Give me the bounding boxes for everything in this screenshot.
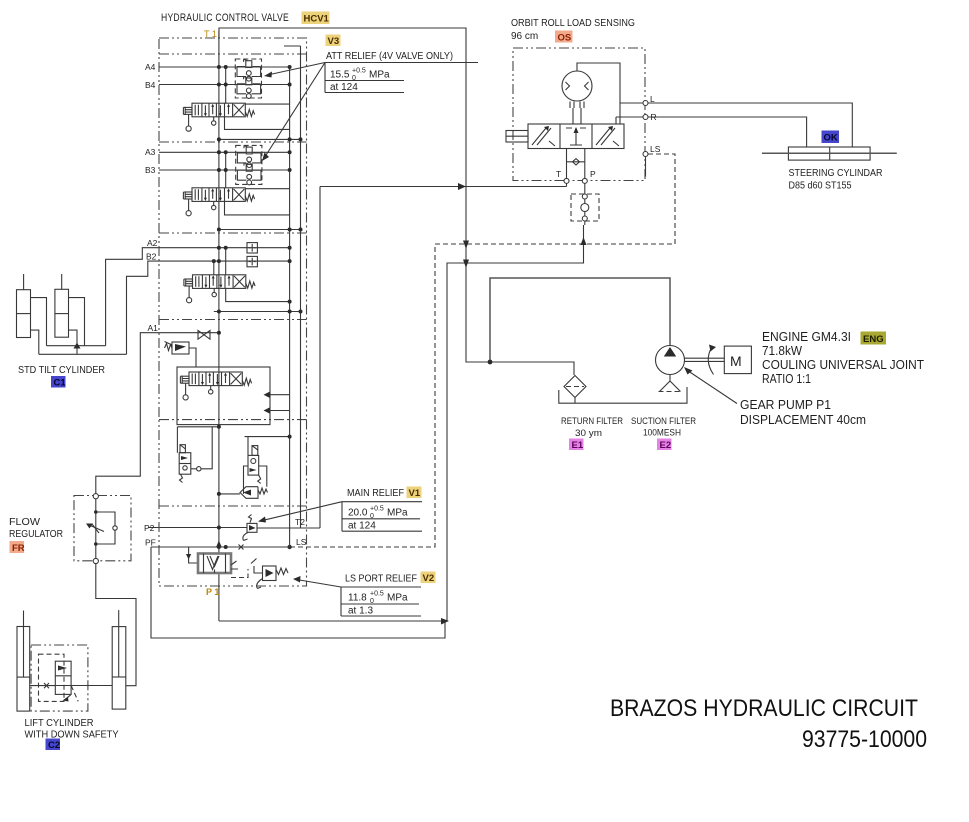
return filter diamond	[564, 376, 586, 398]
tilt junction arrow	[76, 346, 78, 355]
section divider y506	[159, 505, 307, 507]
valve right internal vertical	[289, 67, 291, 547]
orbit roll dash-dot enclosure	[513, 48, 645, 181]
section divider y233	[159, 232, 307, 234]
svg-text:LS: LS	[296, 537, 307, 547]
sec1 throttle bowtie on A1	[198, 330, 204, 339]
sec1 outer solid box	[177, 367, 270, 425]
svg-text:+0.5: +0.5	[370, 591, 384, 598]
svg-text:HCV1: HCV1	[304, 14, 330, 25]
sec2 riser A	[225, 248, 227, 275]
tilt header A wire	[47, 345, 106, 347]
pump outlet stub	[669, 375, 671, 382]
wire T2 port line	[257, 527, 320, 529]
steering cylinder rod	[762, 152, 897, 154]
motor top loop	[577, 63, 620, 124]
svg-text:V1: V1	[409, 488, 421, 499]
svg-text:20.0: 20.0	[348, 508, 368, 519]
tilt header B wire	[39, 353, 127, 355]
orbit roll gerotor motor	[562, 71, 592, 101]
svg-text:15.5: 15.5	[330, 70, 350, 81]
wire valve to cyl2	[71, 685, 112, 687]
pilot section left valve outlet	[191, 468, 197, 470]
main relief V1 valve	[247, 523, 257, 532]
svg-text:PF: PF	[145, 538, 156, 548]
svg-text:at 124: at 124	[348, 521, 376, 532]
svg-text:L: L	[650, 94, 655, 104]
sec1 comp valve	[172, 342, 189, 354]
wire A1 to flow regulator	[96, 333, 159, 494]
wire R to steering cylinder	[648, 117, 807, 147]
V1 table	[342, 502, 422, 532]
svg-text:P: P	[590, 169, 596, 179]
wire regulator to lift cylinders	[96, 564, 136, 686]
tilt cylinder 1 rod	[23, 274, 25, 290]
engine M box	[724, 346, 751, 374]
sec4 check assembly upper	[237, 59, 261, 81]
sec2 work line B elbow	[226, 288, 290, 301]
down safety inner dashed box	[39, 654, 65, 701]
svg-text:WITH DOWN SAFETY: WITH DOWN SAFETY	[25, 730, 119, 741]
tilt cyl1 head port wire	[31, 298, 47, 346]
valve left chamber arrows	[532, 128, 546, 145]
sec3 spool valve	[183, 188, 254, 216]
wire P2 port line	[148, 527, 247, 529]
svg-text:at 1.3: at 1.3	[348, 606, 373, 617]
svg-text:DISPLACEMENT 40cm: DISPLACEMENT 40cm	[740, 413, 866, 427]
down safety line with X	[30, 685, 56, 687]
port line B2	[159, 260, 290, 262]
svg-text:MPa: MPa	[369, 70, 390, 81]
svg-text:STEERING CYLINDAR: STEERING CYLINDAR	[789, 168, 883, 179]
svg-text:MPa: MPa	[387, 508, 408, 519]
svg-text:ORBIT ROLL LOAD SENSING: ORBIT ROLL LOAD SENSING	[511, 18, 635, 29]
HCV1 outer dash-dot enclosure	[159, 38, 307, 586]
flow regulator dash-dot box	[74, 496, 131, 561]
tag C2	[46, 739, 61, 751]
sec3 line to right rail	[245, 188, 289, 190]
svg-text:B4: B4	[145, 80, 156, 90]
flow regulator center line	[95, 499, 97, 559]
junction arrow LS dashed at down line	[463, 241, 469, 250]
sec2 tank collect line	[214, 311, 301, 313]
tag E2	[657, 439, 672, 451]
valve right chamber arrows	[596, 128, 610, 145]
svg-text:RATIO 1:1: RATIO 1:1	[762, 372, 811, 386]
lift cylinder 2 rod	[118, 610, 120, 677]
T port	[566, 149, 568, 179]
svg-text:P 1: P 1	[206, 587, 219, 597]
down safety pilot dashes	[65, 686, 78, 702]
flow regulator outlet circle	[93, 558, 98, 563]
pilot section shuttle	[240, 487, 258, 499]
svg-text:MAIN RELIEF: MAIN RELIEF	[347, 488, 404, 499]
svg-text:E2: E2	[660, 440, 672, 451]
svg-text:LIFT CYLINDER: LIFT CYLINDER	[25, 718, 94, 729]
sec3 check assembly upper	[237, 146, 261, 168]
wire B2 staircase to tilt cylinders	[127, 261, 160, 354]
svg-text:0: 0	[370, 598, 374, 605]
gear pump leader	[686, 370, 737, 404]
wire PF line down and right along bottom	[151, 547, 445, 638]
svg-text:A1: A1	[148, 323, 159, 333]
sec4 work line B elbow	[225, 117, 290, 130]
tag V3	[326, 35, 341, 47]
svg-text:B3: B3	[145, 165, 156, 175]
LS port	[643, 152, 648, 157]
V2 table	[341, 587, 421, 616]
sec4 check assembly lower	[237, 76, 261, 98]
port line A1	[159, 332, 219, 334]
V3 leader to sec3	[265, 63, 326, 158]
LS line X plug	[239, 545, 244, 550]
wire L to steering cylinder	[648, 103, 852, 147]
V2 leader	[297, 580, 342, 588]
svg-text:T: T	[556, 169, 561, 179]
svg-text:ENG: ENG	[863, 334, 884, 345]
check valve on P (dashed box)	[571, 194, 599, 221]
wire orbit T to drain header	[566, 183, 568, 186]
sec3 tank collect line	[219, 229, 301, 231]
port line A2	[159, 247, 290, 249]
down safety valve body	[55, 661, 71, 694]
svg-text:V3: V3	[328, 36, 340, 47]
P1 load check	[189, 547, 198, 563]
wire LS dashed route valve to orbit roll	[290, 154, 675, 547]
junction dots valve	[217, 65, 221, 69]
section divider y319.5	[159, 319, 307, 321]
lift cylinder 1 body	[17, 627, 30, 712]
steering control valve body	[528, 124, 624, 149]
sec2 orifice block A2	[247, 243, 257, 253]
svg-text:FLOW: FLOW	[9, 517, 41, 528]
down safety dash-dot box	[31, 645, 88, 711]
svg-text:ENGINE GM4.3I: ENGINE GM4.3I	[762, 330, 851, 344]
svg-text:100MESH: 100MESH	[643, 428, 681, 438]
svg-text:T 1: T 1	[204, 29, 217, 39]
svg-text:M: M	[730, 353, 742, 369]
svg-text:E1: E1	[572, 440, 584, 451]
tilt cylinder 2 body	[55, 289, 69, 337]
svg-text:COULING UNIVERSAL JOINT: COULING UNIVERSAL JOINT	[762, 358, 924, 372]
tag ENG	[861, 332, 887, 345]
wire T2/orbit-T drain header y=186.5	[320, 187, 567, 529]
sec1 stub line upper	[270, 394, 290, 396]
valve center vertical T1 line	[218, 31, 220, 621]
flow regulator inlet circle	[93, 494, 98, 499]
sec4 riser A	[225, 67, 227, 103]
svg-text:+0.5: +0.5	[370, 506, 384, 513]
section divider y419.6	[159, 419, 307, 421]
motor shaft splines	[570, 102, 584, 125]
sec4 pilot dashed box	[235, 59, 261, 98]
valve tank vertical with cap	[284, 46, 301, 528]
svg-text:LS PORT RELIEF: LS PORT RELIEF	[345, 574, 417, 585]
svg-text:STD TILT CYLINDER: STD TILT CYLINDER	[18, 365, 105, 376]
arrow LS dashed at orbit P line	[581, 237, 587, 245]
V1 leader	[262, 502, 343, 521]
tilt cyl2 rod port wire	[69, 330, 78, 346]
port line B3	[159, 169, 290, 171]
svg-text:T2: T2	[295, 517, 305, 527]
tank line	[559, 387, 687, 403]
junction dot LS at valve internal line	[287, 545, 291, 549]
lift cylinder 1 rod	[23, 611, 25, 678]
tag E1	[569, 439, 584, 451]
P1 pilot dashed stub	[231, 569, 248, 578]
svg-text:A3: A3	[145, 147, 156, 157]
L port	[643, 101, 648, 106]
svg-text:30 ym: 30 ym	[575, 428, 602, 438]
valve left spool end tab	[506, 131, 528, 143]
arrow supply corner	[441, 618, 449, 625]
svg-text:at 124: at 124	[330, 82, 358, 93]
wire supply: pump section P1 bottom to orbit roll P	[219, 225, 584, 621]
svg-text:LS: LS	[650, 144, 661, 154]
tilt cylinder 2 rod	[61, 274, 63, 289]
pilot section top line to rail	[245, 437, 290, 456]
sec1 stub line lower	[270, 410, 290, 412]
svg-text:A4: A4	[145, 62, 156, 72]
svg-text:B2: B2	[146, 252, 157, 262]
svg-text:11.8: 11.8	[348, 593, 367, 604]
rotation arrow	[708, 346, 713, 375]
wire pump output to filter junction	[490, 278, 670, 362]
V3 leader to sec4	[268, 63, 326, 76]
orbit pilot orifice line	[567, 161, 585, 163]
P port	[584, 149, 586, 179]
svg-text:P2: P2	[144, 523, 155, 533]
pilot section left valve	[179, 453, 191, 475]
port line A4	[159, 66, 290, 68]
tag OS	[555, 31, 573, 43]
svg-text:A2: A2	[147, 238, 158, 248]
sec3 pilot dashed box	[236, 145, 262, 184]
valve mid chamber	[566, 128, 586, 145]
sec4 tank collect line	[219, 138, 301, 140]
sec3 check assembly lower	[237, 163, 261, 185]
tilt cyl2 head port wire	[69, 298, 85, 346]
svg-text:93775-10000: 93775-10000	[802, 726, 927, 753]
tag FR	[10, 541, 25, 553]
svg-text:R: R	[651, 112, 657, 122]
svg-text:96 cm: 96 cm	[511, 31, 538, 42]
wire T1 top return: valve T1 up, right, down to return line	[219, 28, 574, 375]
gear pump circle	[656, 346, 685, 375]
V3 table	[325, 63, 478, 93]
section divider y142	[159, 141, 307, 143]
tag OK	[822, 131, 840, 144]
port line PF solid	[151, 546, 290, 548]
drive shaft	[685, 358, 725, 361]
sec3 riser A	[225, 152, 227, 188]
junction arrow T header into down line	[458, 183, 466, 190]
sec1 spool valve	[180, 372, 251, 400]
sec3 work line B elbow	[225, 201, 290, 215]
arrow up on T1 at PF	[216, 541, 222, 548]
port line A3	[159, 151, 290, 153]
svg-text:C2: C2	[48, 740, 60, 751]
svg-text:D85 d60 ST155: D85 d60 ST155	[789, 181, 852, 192]
svg-text:OS: OS	[558, 33, 572, 44]
port line B4	[159, 84, 290, 86]
svg-text:OK: OK	[824, 133, 838, 144]
svg-text:+0.5: +0.5	[352, 68, 366, 75]
svg-text:HYDRAULIC CONTROL VALVE: HYDRAULIC CONTROL VALVE	[161, 12, 289, 24]
suction strainer	[660, 381, 681, 392]
section divider y54	[159, 53, 307, 55]
svg-text:MPa: MPa	[387, 593, 408, 604]
tag V1	[407, 487, 422, 499]
steering cylinder body	[788, 147, 870, 160]
svg-text:71.8kW: 71.8kW	[762, 344, 802, 358]
sec4 spool valve	[183, 103, 254, 131]
LS port relief V2 valve	[263, 566, 277, 581]
tilt cyl1 rod port wire	[31, 330, 39, 354]
svg-text:GEAR PUMP P1: GEAR PUMP P1	[740, 398, 831, 412]
flow regulator restrictor arrow	[88, 525, 104, 532]
svg-text:RETURN FILTER: RETURN FILTER	[561, 416, 623, 426]
tag C1	[51, 376, 66, 388]
tag V2	[421, 572, 436, 584]
svg-text:ATT RELIEF (4V VALVE ONLY): ATT RELIEF (4V VALVE ONLY)	[326, 51, 453, 62]
flow regulator bypass loop	[96, 512, 115, 544]
svg-text:0: 0	[370, 513, 374, 520]
R port	[643, 115, 648, 120]
pilot section feed line	[219, 493, 240, 495]
svg-text:SUCTION FILTER: SUCTION FILTER	[631, 416, 696, 426]
tilt cylinder 1 body	[17, 290, 31, 338]
pilot section right reducing valve	[248, 455, 259, 475]
svg-text:V2: V2	[423, 573, 435, 584]
svg-text:BRAZOS HYDRAULIC CIRCUIT: BRAZOS HYDRAULIC CIRCUIT	[610, 695, 918, 722]
svg-text:C1: C1	[54, 378, 67, 389]
sec2 spool valve	[184, 275, 255, 303]
sec2 orifice block B2	[247, 256, 257, 266]
wire A2 staircase to tilt cylinders	[106, 248, 159, 346]
svg-text:REGULATOR: REGULATOR	[9, 529, 63, 540]
svg-text:0: 0	[352, 75, 356, 82]
sec4 line to right rail	[245, 103, 289, 105]
svg-text:FR: FR	[12, 543, 25, 554]
lift cylinder 2 body	[112, 627, 126, 710]
tag HCV1	[302, 12, 330, 25]
sec2 riser B	[213, 261, 215, 275]
junction arrow supply crossing	[463, 260, 469, 269]
P1 inlet spool (grey)	[198, 554, 231, 574]
junction dot pump line at return line	[488, 360, 493, 365]
